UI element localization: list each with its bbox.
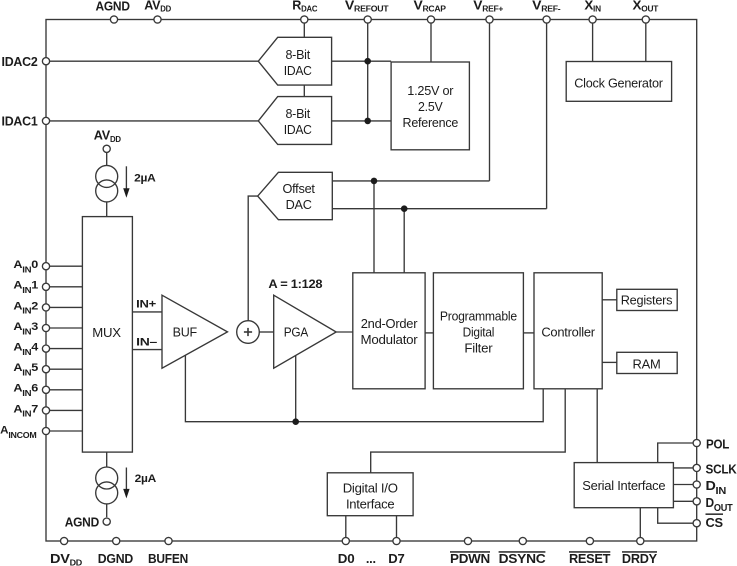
svg-text:AIN0: AIN0 [13, 259, 38, 274]
svg-text:DGND: DGND [98, 551, 133, 566]
svg-text:IDAC2: IDAC2 [2, 54, 38, 69]
svg-text:DOUT: DOUT [706, 495, 733, 514]
svg-text:8-Bit: 8-Bit [285, 106, 310, 121]
svg-text:Filter: Filter [464, 340, 493, 355]
svg-text:Digital I/O: Digital I/O [343, 481, 398, 496]
svg-text:Modulator: Modulator [361, 332, 419, 347]
svg-text:Controller: Controller [541, 324, 595, 339]
svg-text:Digital: Digital [463, 324, 495, 339]
svg-text:A = 1:128: A = 1:128 [268, 277, 323, 291]
svg-text:2µA: 2µA [134, 173, 155, 185]
svg-text:CS: CS [706, 515, 724, 530]
svg-text:RDAC: RDAC [292, 0, 318, 14]
svg-text:IDAC: IDAC [284, 63, 313, 78]
svg-text:BUFEN: BUFEN [148, 551, 188, 566]
svg-text:D7: D7 [388, 551, 404, 566]
svg-text:Serial Interface: Serial Interface [582, 478, 665, 493]
svg-text:RESET: RESET [569, 551, 611, 566]
svg-text:VREF-: VREF- [532, 0, 561, 14]
svg-text:Interface: Interface [346, 497, 395, 512]
svg-text:VREFOUT: VREFOUT [345, 0, 389, 14]
svg-text:VRCAP: VRCAP [414, 0, 446, 14]
svg-text:RAM: RAM [633, 356, 661, 371]
svg-text:DAC: DAC [286, 197, 313, 212]
svg-text:2nd-Order: 2nd-Order [361, 316, 418, 331]
svg-text:AIN4: AIN4 [13, 342, 38, 357]
svg-text:AIN7: AIN7 [13, 403, 38, 418]
svg-text:BUF: BUF [173, 325, 197, 340]
svg-text:AVDD: AVDD [144, 0, 171, 14]
svg-text:2.5V: 2.5V [418, 99, 443, 114]
svg-text:AIN5: AIN5 [13, 362, 38, 377]
svg-text:Clock Generator: Clock Generator [574, 76, 663, 91]
svg-text:IDAC1: IDAC1 [2, 114, 38, 129]
svg-text:AIN3: AIN3 [13, 321, 38, 336]
svg-text:PDWN: PDWN [450, 551, 490, 566]
svg-text:SCLK: SCLK [706, 462, 737, 477]
svg-text:POL: POL [706, 437, 729, 452]
svg-text:AIN2: AIN2 [13, 300, 38, 315]
svg-text:DSYNC: DSYNC [499, 551, 546, 566]
svg-text:DRDY: DRDY [622, 551, 658, 566]
svg-text:AINCOM: AINCOM [0, 424, 37, 439]
svg-text:XIN: XIN [584, 0, 601, 14]
svg-text:IN+: IN+ [136, 299, 156, 311]
svg-text:IN–: IN– [136, 336, 157, 348]
svg-text:Registers: Registers [621, 293, 673, 308]
svg-text:XOUT: XOUT [633, 0, 659, 14]
svg-text:AIN1: AIN1 [13, 280, 38, 295]
svg-text:VREF+: VREF+ [473, 0, 504, 14]
svg-text:AGND: AGND [65, 514, 99, 529]
svg-text:1.25V or: 1.25V or [407, 83, 454, 98]
svg-text:...: ... [366, 551, 376, 566]
svg-text:2µA: 2µA [135, 473, 156, 485]
svg-text:PGA: PGA [284, 325, 309, 340]
svg-text:AGND: AGND [95, 0, 129, 14]
svg-text:AIN6: AIN6 [13, 383, 38, 398]
svg-text:Offset: Offset [282, 181, 315, 196]
svg-text:8-Bit: 8-Bit [285, 47, 310, 62]
svg-text:Reference: Reference [403, 115, 459, 130]
svg-text:DVDD: DVDD [50, 551, 83, 566]
svg-text:IDAC: IDAC [284, 122, 313, 137]
svg-text:MUX: MUX [92, 325, 121, 340]
svg-text:Programmable: Programmable [440, 308, 517, 323]
svg-text:D0: D0 [338, 551, 355, 566]
